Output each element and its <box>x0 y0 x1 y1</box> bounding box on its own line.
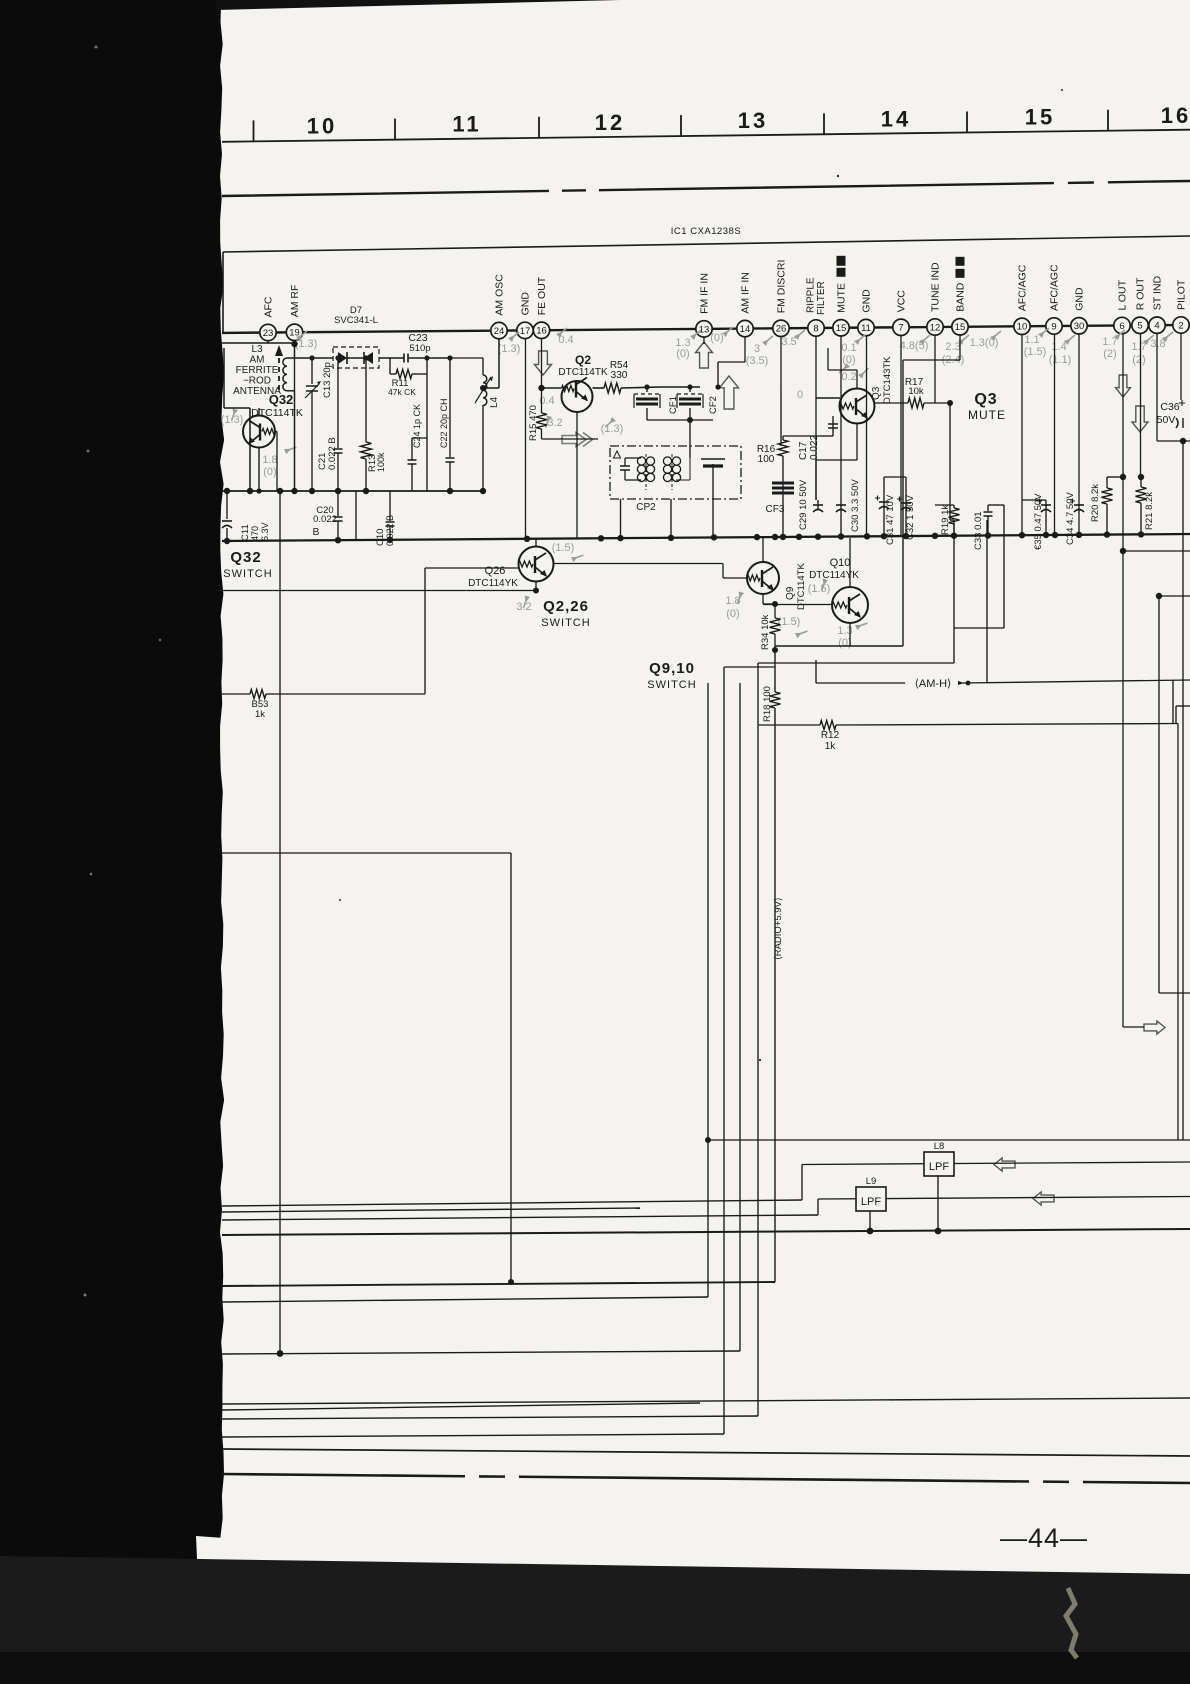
svg-text:0.022: 0.022 <box>809 435 820 460</box>
svg-text:3: 3 <box>754 343 760 355</box>
wire row 1300 <box>222 1297 708 1302</box>
svg-text:0.1: 0.1 <box>841 342 856 354</box>
IC pin 8 (RIPPLE FILTER) <box>808 320 824 336</box>
wire top rail band <box>902 352 904 360</box>
svg-text:TUNE IND: TUNE IND <box>930 262 942 312</box>
svg-text:FM DISCRI: FM DISCRI <box>776 260 788 314</box>
svg-text:470: 470 <box>250 526 260 541</box>
wire pin 12 TUNE IND down <box>934 335 936 403</box>
svg-text:100: 100 <box>758 454 775 465</box>
signal flow arrow down at L OUT <box>1116 375 1131 397</box>
transistor Q3 DTC143TK <box>840 389 875 424</box>
scanner dark background bottom <box>196 1536 225 1560</box>
wire pin 17 GND down to bus <box>525 338 527 538</box>
LPF output leads to bus <box>937 1176 939 1231</box>
wire row 1410 <box>222 1403 700 1410</box>
svg-text:−ROD: −ROD <box>243 376 271 387</box>
svg-text:3.8: 3.8 <box>1150 338 1165 350</box>
svg-text:5: 5 <box>1137 321 1142 332</box>
IC pin 13 (FM IF IN) <box>696 321 712 337</box>
wire row 1434 <box>222 1434 724 1437</box>
svg-text:FM IF IN: FM IF IN <box>699 273 711 314</box>
svg-text:(1.1): (1.1) <box>1049 354 1072 366</box>
svg-text:L8: L8 <box>934 1141 945 1152</box>
svg-text:ST IND: ST IND <box>1152 276 1164 311</box>
svg-text:GND: GND <box>520 292 532 316</box>
svg-text:1k: 1k <box>825 741 837 752</box>
svg-text:8: 8 <box>813 323 818 334</box>
IC pin 16 (FE OUT) <box>533 322 549 338</box>
svg-text:1.4: 1.4 <box>1051 341 1066 353</box>
svg-text:C24 1p CK: C24 1p CK <box>412 404 422 448</box>
page border line top (dash-dot) <box>222 181 1190 196</box>
inductor L8 LPF box <box>802 1162 1190 1165</box>
kanji annotation after MUTE <box>837 256 846 277</box>
svg-text:1.8: 1.8 <box>262 454 277 466</box>
IC pin 4 (ST IND) <box>1149 317 1165 333</box>
right edge connector wires <box>1123 550 1190 552</box>
svg-text:Q9: Q9 <box>785 586 796 600</box>
wire row 1351 <box>222 1351 740 1354</box>
scratch mark in dark area bottom right <box>1066 1588 1077 1658</box>
IC pin 15 (MUTE) <box>833 320 849 336</box>
svg-text:(1.3): (1.3) <box>295 338 318 350</box>
wire row 1282 <box>222 1282 775 1286</box>
wire pin 7 VCC down <box>900 335 902 537</box>
wire pin 2 PILOT down <box>1180 333 1182 400</box>
svg-text:12: 12 <box>595 110 625 135</box>
svg-text:15: 15 <box>836 323 847 334</box>
wire pin 8 ripple filter down <box>815 336 817 500</box>
svg-text:510p: 510p <box>409 343 430 354</box>
wire switch line Q26 <box>220 590 536 592</box>
transistor Q32 DTC114TK <box>243 416 275 448</box>
wire bundle to left edge B <box>222 1215 818 1220</box>
signal flow arrow up near AM IF IN <box>720 376 739 409</box>
routing wire to switches (staircase) <box>902 384 904 646</box>
wire pin 24 AM OSC down to L4 <box>498 339 500 388</box>
resistor R12 1k on line <box>758 724 820 726</box>
svg-text:6.3V: 6.3V <box>260 522 270 541</box>
ruler tick marks <box>253 120 255 141</box>
page border thin line bottom <box>222 1449 1190 1456</box>
svg-text:L OUT: L OUT <box>1117 279 1129 310</box>
thick audio bus bottom <box>222 1229 1190 1235</box>
svg-text:R21 8.2k: R21 8.2k <box>1144 492 1155 530</box>
svg-text:1.1: 1.1 <box>1024 334 1039 346</box>
svg-text:C13 20p: C13 20p <box>322 362 333 398</box>
svg-text:9: 9 <box>1051 321 1056 332</box>
svg-text:(1.5): (1.5) <box>1024 346 1047 358</box>
svg-text:CP2: CP2 <box>636 502 656 513</box>
svg-text:C29 10 50V: C29 10 50V <box>798 479 809 530</box>
svg-text:(0): (0) <box>710 332 723 344</box>
svg-text:(3.5): (3.5) <box>746 355 769 367</box>
svg-text:14: 14 <box>881 106 911 131</box>
svg-text:13: 13 <box>738 108 768 133</box>
svg-text:C36: C36 <box>1160 401 1179 413</box>
DP2 box leads to bus <box>620 499 622 537</box>
IC U1 CXA1238S body outline <box>223 236 1190 252</box>
svg-text:Q10: Q10 <box>830 557 851 569</box>
wire diode box to C23 <box>379 357 404 359</box>
ceramic filter CF1 <box>646 387 648 392</box>
svg-text:FERRITE: FERRITE <box>236 365 279 376</box>
signal flow arrow right lower right <box>1144 1021 1165 1034</box>
svg-text:L9: L9 <box>866 1176 877 1187</box>
svg-text:C34 4.7 50V: C34 4.7 50V <box>1065 492 1076 545</box>
signal flow arrow down at FE OUT <box>535 351 552 375</box>
wire Q32 base <box>275 431 277 433</box>
wire pin 15 BAND down <box>959 335 961 360</box>
svg-text:(1.5): (1.5) <box>808 583 831 595</box>
svg-text:CF2: CF2 <box>708 396 719 414</box>
svg-text:C33 0.01: C33 0.01 <box>973 511 984 550</box>
svg-text:⟨AM-H⟩: ⟨AM-H⟩ <box>915 678 952 690</box>
page border line bottom (dash-dot) <box>222 1474 1190 1483</box>
svg-text:Q2: Q2 <box>575 353 591 367</box>
ceramic filter CF2 <box>689 387 691 392</box>
svg-text:SWITCH: SWITCH <box>647 679 696 691</box>
wire AM RF line <box>295 357 334 359</box>
svg-text:⟨RADIO+5.9V⟩: ⟨RADIO+5.9V⟩ <box>773 897 784 960</box>
wire bundle to left edge A <box>222 1200 802 1206</box>
wire Q26 base via R53 <box>424 568 426 694</box>
IC pin 2 (PILOT) <box>1173 317 1189 333</box>
trimmer capacitor C13 20p <box>311 358 313 384</box>
wire pin 10 AFC/AGC down <box>1021 334 1023 537</box>
wire pin 5 R OUT down <box>1140 333 1142 477</box>
resistor R13 100k <box>365 358 367 442</box>
svg-text:B: B <box>312 526 319 538</box>
wire pin 11 GND down to bus <box>866 336 868 537</box>
DP2 internal capacitor <box>624 458 626 466</box>
ground bus line <box>222 534 1190 541</box>
signal flow arrow down at R OUT <box>1132 406 1148 432</box>
wire AM OSC out with chevron <box>542 438 599 440</box>
svg-text:LPF: LPF <box>929 1161 949 1173</box>
svg-text:GND: GND <box>1074 287 1086 311</box>
svg-text:(0): (0) <box>726 608 739 620</box>
svg-text:R12: R12 <box>821 730 840 741</box>
long vertical wire from AM node <box>279 491 281 1351</box>
svg-text:17: 17 <box>520 326 531 337</box>
wire AFC pin 23 to left edge <box>267 341 269 344</box>
IC pin 14 (AM IF IN) <box>737 320 753 336</box>
svg-text:24: 24 <box>494 326 505 337</box>
svg-text:RIPPLE: RIPPLE <box>806 277 817 313</box>
svg-text:10: 10 <box>307 114 337 139</box>
IC pin 5 (R OUT) <box>1132 317 1148 333</box>
svg-text:3.5: 3.5 <box>781 336 796 348</box>
svg-text:(0): (0) <box>676 348 689 360</box>
wire pin 6 L OUT down <box>1122 334 1124 1028</box>
resistor R11 47k CK <box>389 358 391 374</box>
svg-text:AFC/AGC: AFC/AGC <box>1017 264 1029 311</box>
signal flow arrow up at FM IF IN <box>696 342 713 368</box>
discriminator DP2 dash-dot box <box>610 446 741 499</box>
IC pin 24 (AM OSC) <box>491 322 507 338</box>
svg-text:2.3: 2.3 <box>945 341 960 353</box>
IC pin 30 (GND) <box>1071 318 1087 334</box>
wire bundle to left edge C <box>222 1208 640 1212</box>
IC pin 23 (AFC) <box>260 324 276 340</box>
svg-text:4: 4 <box>1154 321 1159 332</box>
svg-text:PILOT: PILOT <box>1176 279 1188 310</box>
wire pin 13 FM IF IN down <box>703 337 705 344</box>
svg-text:16: 16 <box>1161 103 1190 128</box>
transistor Q9 DTC114TK <box>747 562 779 594</box>
svg-text:L4: L4 <box>489 396 500 408</box>
svg-text:(2): (2) <box>1132 354 1145 366</box>
svg-text:0.2: 0.2 <box>841 371 856 383</box>
svg-text:11: 11 <box>452 112 481 137</box>
IC pin 7 (VCC) <box>893 319 909 335</box>
svg-text:AM RF: AM RF <box>289 285 301 318</box>
svg-text:0.022: 0.022 <box>313 514 337 525</box>
wire left lower vertical <box>222 852 511 854</box>
IC pin 6 (L OUT) <box>1114 317 1130 333</box>
wire pin 19 down <box>294 340 296 358</box>
svg-text:AM: AM <box>250 355 265 366</box>
svg-text:26: 26 <box>776 324 787 335</box>
svg-text:AFC: AFC <box>263 296 275 317</box>
svg-text:DTC114YK: DTC114YK <box>468 578 518 589</box>
svg-text:(1.5): (1.5) <box>552 542 575 554</box>
ruler scale line top <box>222 130 1190 142</box>
svg-text:(1.3): (1.3) <box>498 343 521 355</box>
IC pin 19 (AM RF) <box>286 324 302 340</box>
svg-text:Q9,10: Q9,10 <box>649 660 695 677</box>
variable inductor L4 <box>450 357 483 359</box>
svg-text:AFC/AGC: AFC/AGC <box>1049 264 1061 311</box>
svg-text:C22 20p CH: C22 20p CH <box>439 398 449 448</box>
IC pin 26 (FM DISCRI) <box>773 320 789 336</box>
svg-text:(0): (0) <box>842 354 855 366</box>
svg-text:VCC: VCC <box>896 290 908 313</box>
svg-text:12: 12 <box>930 322 941 333</box>
ferrite core dashed arrow <box>278 356 280 390</box>
IC pin 17 (GND) <box>517 322 533 338</box>
wire pin 9 AFC/AGC down <box>1054 334 1056 537</box>
ceramic filter CF3 <box>772 483 794 493</box>
svg-text:R OUT: R OUT <box>1135 277 1147 310</box>
svg-text:SWITCH: SWITCH <box>223 568 272 580</box>
svg-text:1k: 1k <box>255 709 265 720</box>
kanji annotation after BAND <box>956 257 965 278</box>
wire pin 4 ST IND down / C36 <box>1156 333 1158 441</box>
svg-text:Q3: Q3 <box>974 391 997 408</box>
svg-text:11: 11 <box>861 323 871 334</box>
svg-text:DTC114YK: DTC114YK <box>809 570 859 581</box>
svg-text:MUTE: MUTE <box>968 408 1006 422</box>
svg-text:Q32: Q32 <box>269 392 294 407</box>
svg-text:DTC114TK: DTC114TK <box>796 563 807 610</box>
signal flow chevron arrow right AM OSC <box>562 433 593 447</box>
svg-text:BAND: BAND <box>955 282 967 312</box>
signal flow arrow left on L9 LPF line <box>1033 1192 1054 1205</box>
svg-text:(1.3): (1.3) <box>601 423 624 435</box>
svg-text:2: 2 <box>1178 320 1183 331</box>
resistor R53 1k <box>222 693 250 695</box>
svg-text:15: 15 <box>1025 105 1055 130</box>
IC pin 11 (GND) <box>858 319 874 335</box>
wire row 1416 <box>222 1416 758 1419</box>
IC pin 9 (AFC/AGC) <box>1046 318 1062 334</box>
svg-text:AM IF IN: AM IF IN <box>740 272 752 313</box>
wire row 1401 <box>222 1398 1190 1404</box>
svg-text:1.7: 1.7 <box>1102 336 1117 348</box>
svg-text:Q32: Q32 <box>230 549 261 566</box>
svg-text:330: 330 <box>611 370 628 381</box>
wire pin 30 GND down <box>1078 334 1080 537</box>
IC pin 15 (BAND) <box>952 319 968 335</box>
wire pin 15 mute down <box>840 336 842 500</box>
svg-text:FILTER: FILTER <box>816 281 827 315</box>
wire pin 26 FM DISCRI down <box>780 336 782 388</box>
svg-text:DTC114TK: DTC114TK <box>558 367 608 378</box>
wire antenna to Q32 <box>294 391 296 491</box>
svg-text:10k: 10k <box>908 386 924 397</box>
IC pin 10 (AFC/AGC) <box>1014 318 1030 334</box>
IC pin bus line <box>222 325 1190 333</box>
svg-text:15: 15 <box>955 322 966 333</box>
svg-text:50V: 50V <box>1157 414 1176 426</box>
svg-text:C30 3.3 50V: C30 3.3 50V <box>850 479 861 532</box>
svg-text:FE OUT: FE OUT <box>536 276 548 315</box>
svg-text:Q2,26: Q2,26 <box>543 598 589 615</box>
wire pin 16 FE OUT down <box>541 338 543 388</box>
svg-text:(0): (0) <box>263 466 276 478</box>
wire to ceramic filters <box>660 386 700 388</box>
DP2 transformer coils <box>637 457 645 465</box>
transistor Q10 DTC114YK <box>832 587 868 623</box>
svg-text:16: 16 <box>536 326 547 337</box>
node line AM section <box>222 490 483 492</box>
wire CF outputs join <box>647 419 713 421</box>
svg-text:LPF: LPF <box>861 1196 881 1208</box>
wire lower distribution line <box>708 1139 1190 1141</box>
svg-text:100k: 100k <box>376 452 386 472</box>
diode pair D? dashed box <box>333 347 379 368</box>
capacitor C24 1p CK <box>426 374 428 491</box>
svg-text:SWITCH: SWITCH <box>541 617 590 629</box>
svg-text:30: 30 <box>1074 321 1085 332</box>
svg-text:—44—: —44— <box>1000 1523 1088 1553</box>
svg-text:(2): (2) <box>1103 348 1116 360</box>
svg-text:R19 1k: R19 1k <box>940 505 951 535</box>
gray pointer arrows <box>296 331 307 341</box>
svg-text:CF3: CF3 <box>766 504 785 515</box>
long vertical wires to bottom <box>707 683 709 1297</box>
svg-text:Q26: Q26 <box>485 565 506 577</box>
svg-text:14: 14 <box>740 324 751 335</box>
svg-text:R20 8.2k: R20 8.2k <box>1090 484 1101 522</box>
transistor Q2 DTC114TK <box>542 387 562 389</box>
svg-text:47k CK: 47k CK <box>388 387 416 397</box>
DP2 detector element <box>689 446 691 458</box>
svg-text:AM OSC: AM OSC <box>494 274 506 316</box>
paper speckles <box>339 89 1063 1061</box>
svg-text:DTC143TK: DTC143TK <box>882 356 893 404</box>
svg-text:MUTE: MUTE <box>836 283 848 313</box>
svg-text:SVC341-L: SVC341-L <box>334 315 378 326</box>
wire pin 14 AM IF IN down <box>744 337 746 362</box>
svg-text:(1.5): (1.5) <box>778 616 801 628</box>
svg-text:7: 7 <box>898 323 903 334</box>
ground bus junction dots <box>224 538 230 544</box>
IC pin 12 (TUNE IND) <box>927 319 943 335</box>
svg-text:GND: GND <box>861 289 873 313</box>
ferrite rod antenna L3 coil <box>283 358 287 391</box>
svg-text:1.7: 1.7 <box>1131 341 1146 353</box>
svg-text:23: 23 <box>263 328 274 339</box>
svg-text:R18 100: R18 100 <box>762 686 773 722</box>
inductor L9 LPF box <box>818 1197 1190 1200</box>
scanner black margin left <box>0 0 224 1684</box>
svg-text:IC1 CXA1238S: IC1 CXA1238S <box>671 226 741 237</box>
net label AM-H line <box>816 682 905 684</box>
svg-text:L3: L3 <box>251 344 263 355</box>
svg-text:C17: C17 <box>798 441 809 460</box>
svg-text:10: 10 <box>1017 322 1028 333</box>
transistor Q26 DTC114YK <box>519 547 554 582</box>
signal flow arrow left on L8 LPF line <box>994 1158 1015 1171</box>
svg-text:0: 0 <box>797 389 803 401</box>
